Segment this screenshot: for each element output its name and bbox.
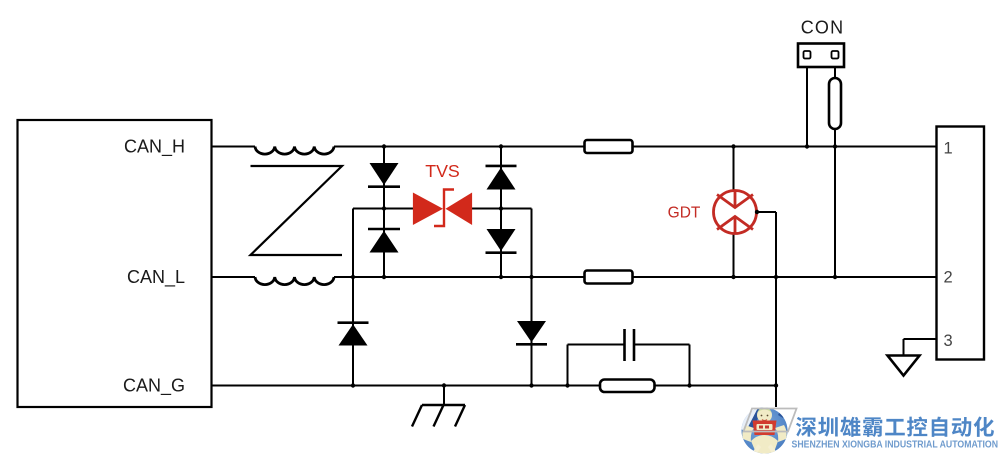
svg-text:CAN_G: CAN_G [123,376,185,397]
svg-text:GDT: GDT [668,205,701,222]
svg-text:1: 1 [944,140,953,158]
svg-text:CAN_L: CAN_L [127,267,185,288]
svg-text:SHENZHEN XIONGBA INDUSTRIAL AU: SHENZHEN XIONGBA INDUSTRIAL AUTOMATION [792,439,999,451]
svg-text:TVS: TVS [425,161,460,181]
svg-text:CON: CON [801,18,845,38]
svg-text:CAN_H: CAN_H [124,137,185,158]
svg-text:2: 2 [944,269,953,287]
svg-text:3: 3 [944,332,953,350]
